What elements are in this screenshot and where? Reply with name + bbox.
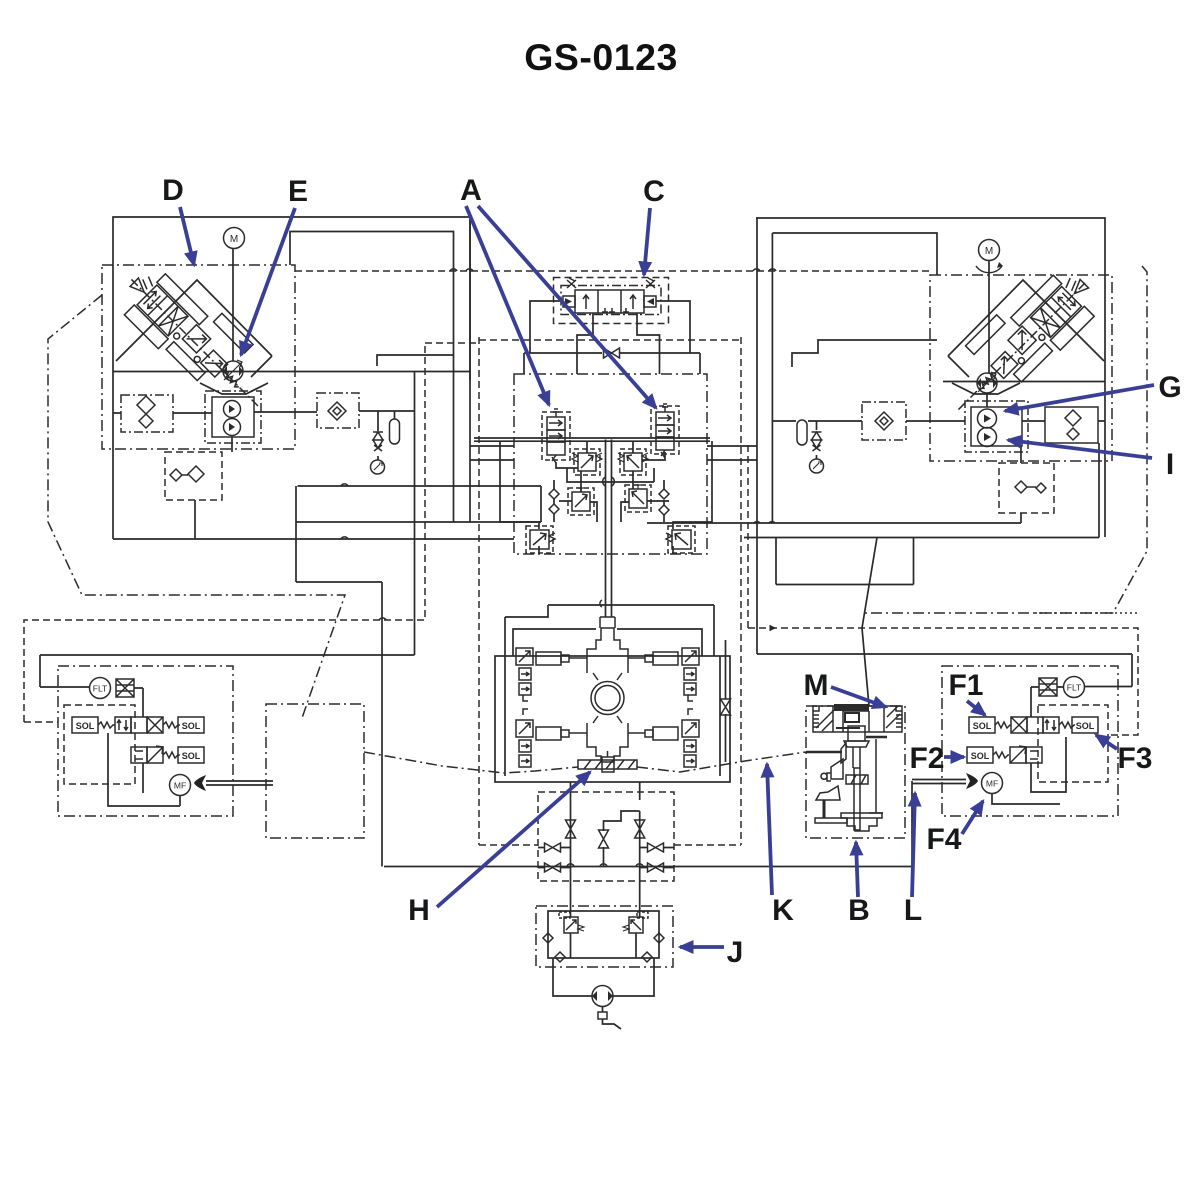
left sol dashdot box <box>58 666 233 816</box>
left SOL2 <box>178 717 204 733</box>
arrow L <box>912 793 915 897</box>
left SOL1 <box>72 717 115 733</box>
MF feed left double line <box>206 781 273 785</box>
swivel top clamp <box>587 617 628 680</box>
cluster wires right <box>621 441 712 554</box>
J relief left <box>559 912 584 933</box>
wire inner step left <box>290 232 454 523</box>
pump right <box>977 372 997 393</box>
right box left edge <box>757 218 1132 687</box>
relief left <box>572 453 602 471</box>
J pump <box>592 986 613 1007</box>
arrow A1 <box>466 206 549 405</box>
arrow J <box>680 945 724 949</box>
svg-text:B: B <box>848 894 870 927</box>
wire left box bottom <box>113 538 514 540</box>
left MF arrowhead <box>194 775 206 791</box>
right X box <box>1039 678 1057 696</box>
K line dashdot left <box>364 752 578 773</box>
wire right z-step <box>776 538 914 585</box>
pv left <box>572 487 590 511</box>
cluster sub dashed rects <box>574 449 600 475</box>
svg-text:F3: F3 <box>1117 742 1152 775</box>
diamond frame right <box>948 280 1104 377</box>
center double line down <box>606 440 612 618</box>
left sol inner dashed <box>64 705 135 784</box>
wire accumulator left <box>394 411 396 419</box>
svg-text:MF: MF <box>986 779 998 789</box>
wire left riser to bottom <box>296 486 382 867</box>
svg-text:M: M <box>230 234 238 245</box>
lower diamonds left <box>170 466 204 482</box>
small diamonds A <box>549 489 669 515</box>
left SOL3 <box>178 747 204 763</box>
needle valves hports <box>566 820 645 848</box>
arrow D <box>180 207 194 265</box>
left filter dashed box <box>121 395 173 432</box>
arrow F4 <box>962 801 983 834</box>
svg-text:L: L <box>904 894 922 927</box>
svg-text:FLT: FLT <box>1067 683 1081 693</box>
A valve right <box>656 404 674 458</box>
left FLT <box>90 678 111 699</box>
left gearpump frame <box>205 391 261 443</box>
right SOL F3box <box>1072 717 1098 733</box>
boundary dashdot right <box>863 266 1147 613</box>
svg-text:SOL: SOL <box>76 721 95 731</box>
right valve row1 <box>1011 717 1075 733</box>
dotted stub right <box>1035 612 1138 614</box>
accumulator right <box>797 420 807 445</box>
wire filter row right <box>772 420 1105 422</box>
wire gi pump drop <box>1020 446 1022 523</box>
right sol inner dashed F3 <box>1038 705 1108 782</box>
svg-text:I: I <box>1166 448 1174 481</box>
D box right dashdot <box>930 275 1112 461</box>
J block solid box <box>548 911 659 958</box>
mid filter diamond right <box>875 412 893 430</box>
C outer dashed <box>554 278 669 324</box>
arrow K <box>767 764 772 895</box>
relief right <box>618 453 648 471</box>
svg-text:GS-0123: GS-0123 <box>524 36 678 78</box>
wire check gauge left <box>377 411 379 460</box>
corner valve left <box>530 530 555 549</box>
right box floor <box>943 381 1105 383</box>
wire filter row left <box>113 411 415 413</box>
svg-text:SOL: SOL <box>1076 721 1095 731</box>
left outer box <box>113 217 470 539</box>
pump E left <box>223 360 243 381</box>
svg-text:SOL: SOL <box>971 751 990 761</box>
wire check gauge right <box>816 421 818 459</box>
jump bumps <box>341 269 776 866</box>
check stack left <box>373 432 383 451</box>
central dashed box <box>479 337 741 845</box>
arrow G <box>1005 385 1154 411</box>
svg-text:MF: MF <box>174 781 186 791</box>
accumulator left <box>390 419 400 444</box>
top right outer box <box>756 218 1105 537</box>
staircase right <box>792 340 937 367</box>
arrow H <box>437 772 590 907</box>
flow arrow dash junction <box>770 627 775 629</box>
wire y522 <box>296 521 541 523</box>
right SOL F2 <box>967 747 1009 763</box>
B diag link <box>862 538 877 707</box>
dashed vertical x748 <box>747 445 749 628</box>
filter frame right mid <box>862 402 906 440</box>
wire y523 bus right <box>647 522 1021 524</box>
motor shaft left <box>232 249 234 361</box>
check stack right <box>812 432 822 451</box>
swivel bottom clamp <box>587 716 628 762</box>
left box floor <box>113 371 470 373</box>
swivel corner valve TR <box>682 648 699 701</box>
swivel corner valve BR <box>682 709 699 767</box>
right valve row2 <box>1010 746 1042 763</box>
lower diamonds right <box>1015 481 1046 493</box>
C valve assembly <box>563 278 656 313</box>
svg-text:F2: F2 <box>909 742 944 775</box>
right sol block internals <box>992 687 1066 804</box>
wire x414 <box>40 372 415 688</box>
svg-text:D: D <box>162 174 184 207</box>
wire y486 <box>298 486 542 522</box>
right MF arrowhead <box>966 773 978 789</box>
swivel cylinders <box>536 652 678 740</box>
swivel drops <box>571 782 640 917</box>
filter frame left mid <box>317 393 359 428</box>
wire y537 bus right <box>744 443 1099 538</box>
svg-text:G: G <box>1158 371 1181 404</box>
J wires <box>553 933 654 996</box>
svg-text:E: E <box>288 175 308 208</box>
left MF <box>170 775 191 796</box>
wire A bus <box>474 438 710 441</box>
left X box <box>116 679 134 697</box>
bowtie valve center top <box>604 348 620 358</box>
diag assembly left <box>110 251 288 429</box>
wire C drops <box>577 313 660 374</box>
wire inner step right <box>772 233 937 523</box>
gauge right <box>810 459 824 473</box>
C inner dashdot <box>561 286 661 315</box>
swivel corner valve TL <box>516 648 533 701</box>
D box left dashdot <box>102 265 295 449</box>
cluster wires left <box>500 441 654 554</box>
hports stubs <box>538 848 674 868</box>
bowties hports <box>545 843 664 872</box>
swivel circle <box>591 682 624 715</box>
gear pump left <box>212 397 254 437</box>
arrow A2 <box>478 206 656 408</box>
svg-text:C: C <box>643 175 665 208</box>
corner valve right <box>666 530 691 549</box>
svg-text:M: M <box>804 669 829 702</box>
J drain box <box>598 1012 607 1019</box>
swivel hatch plate <box>578 751 637 772</box>
svg-text:SOL: SOL <box>973 721 992 731</box>
swivel inner walls <box>505 656 720 776</box>
J drain <box>603 1007 622 1029</box>
left valve row2 <box>131 746 180 763</box>
right dashed box <box>748 628 1138 735</box>
swivel corner valve BL <box>516 709 533 767</box>
svg-text:K: K <box>772 894 794 927</box>
hports dashed box <box>538 792 674 881</box>
svg-text:M: M <box>985 246 993 257</box>
svg-text:A: A <box>460 174 482 207</box>
swivel right bowtie <box>721 699 731 715</box>
swivel top feeds <box>505 605 714 656</box>
mid filter diamond left <box>328 402 346 420</box>
wire C side lines <box>530 301 690 353</box>
pv right <box>629 484 647 508</box>
gauge left <box>371 460 385 474</box>
right sol dashdot box <box>942 666 1118 816</box>
arrow E <box>241 208 295 355</box>
right MF <box>982 773 1003 794</box>
motor M left <box>224 228 245 249</box>
wire gear pump drop left <box>195 437 232 539</box>
wire bus y353 <box>524 353 700 374</box>
L riser <box>911 781 913 867</box>
arrow C <box>644 208 650 275</box>
pedestal left <box>200 383 268 394</box>
dashed bus y271 <box>295 270 930 272</box>
check diamond box right <box>1045 407 1098 443</box>
left sol block internals <box>108 688 180 806</box>
J diamonds <box>543 933 664 962</box>
wire A stub left <box>470 446 757 460</box>
swivel outer box <box>495 656 730 782</box>
svg-text:J: J <box>727 936 744 969</box>
B block mech <box>813 704 902 831</box>
diag assembly right <box>930 253 1108 431</box>
filter diamond left a <box>137 396 155 428</box>
dashed box left bottom <box>24 343 479 722</box>
svg-text:SOL: SOL <box>182 751 201 761</box>
svg-text:F1: F1 <box>948 669 983 702</box>
B block dashdot box <box>806 706 905 838</box>
arrow F2 <box>944 755 964 759</box>
svg-text:FLT: FLT <box>93 684 107 694</box>
arrow F3 <box>1096 735 1117 749</box>
svg-text:H: H <box>408 894 430 927</box>
J relief right <box>623 912 648 933</box>
K line solid end <box>806 751 842 753</box>
bus y866 <box>384 866 912 868</box>
right gi frame <box>965 401 1028 452</box>
K line dashdot right <box>637 752 806 772</box>
right SOL F1 <box>969 717 1011 733</box>
svg-text:SOL: SOL <box>182 721 201 731</box>
arrow F1 <box>967 701 985 715</box>
A valve left <box>547 409 565 463</box>
A cluster dashdot box <box>514 374 707 554</box>
svg-text:F4: F4 <box>926 823 961 856</box>
right FLT <box>1064 677 1085 698</box>
right lower dashed box <box>999 463 1054 513</box>
MF feed right double line <box>912 780 966 784</box>
J dashed box <box>536 906 673 967</box>
arrow I <box>1008 440 1152 458</box>
left valve row1 <box>115 717 180 733</box>
empty dashdot box <box>266 704 364 838</box>
diamond frame left <box>116 280 272 377</box>
pedestal right <box>952 383 1020 394</box>
motor M right <box>976 240 1003 273</box>
boundary dashdot left <box>48 295 345 718</box>
swivel right check line <box>725 640 727 762</box>
left lower dashed box <box>165 452 222 500</box>
GI pump <box>971 407 1022 447</box>
motor shaft right <box>987 261 989 407</box>
arrow M <box>831 687 886 707</box>
arrow B <box>856 842 858 897</box>
staircase left <box>377 355 454 366</box>
wire vertical x470 <box>469 217 471 522</box>
